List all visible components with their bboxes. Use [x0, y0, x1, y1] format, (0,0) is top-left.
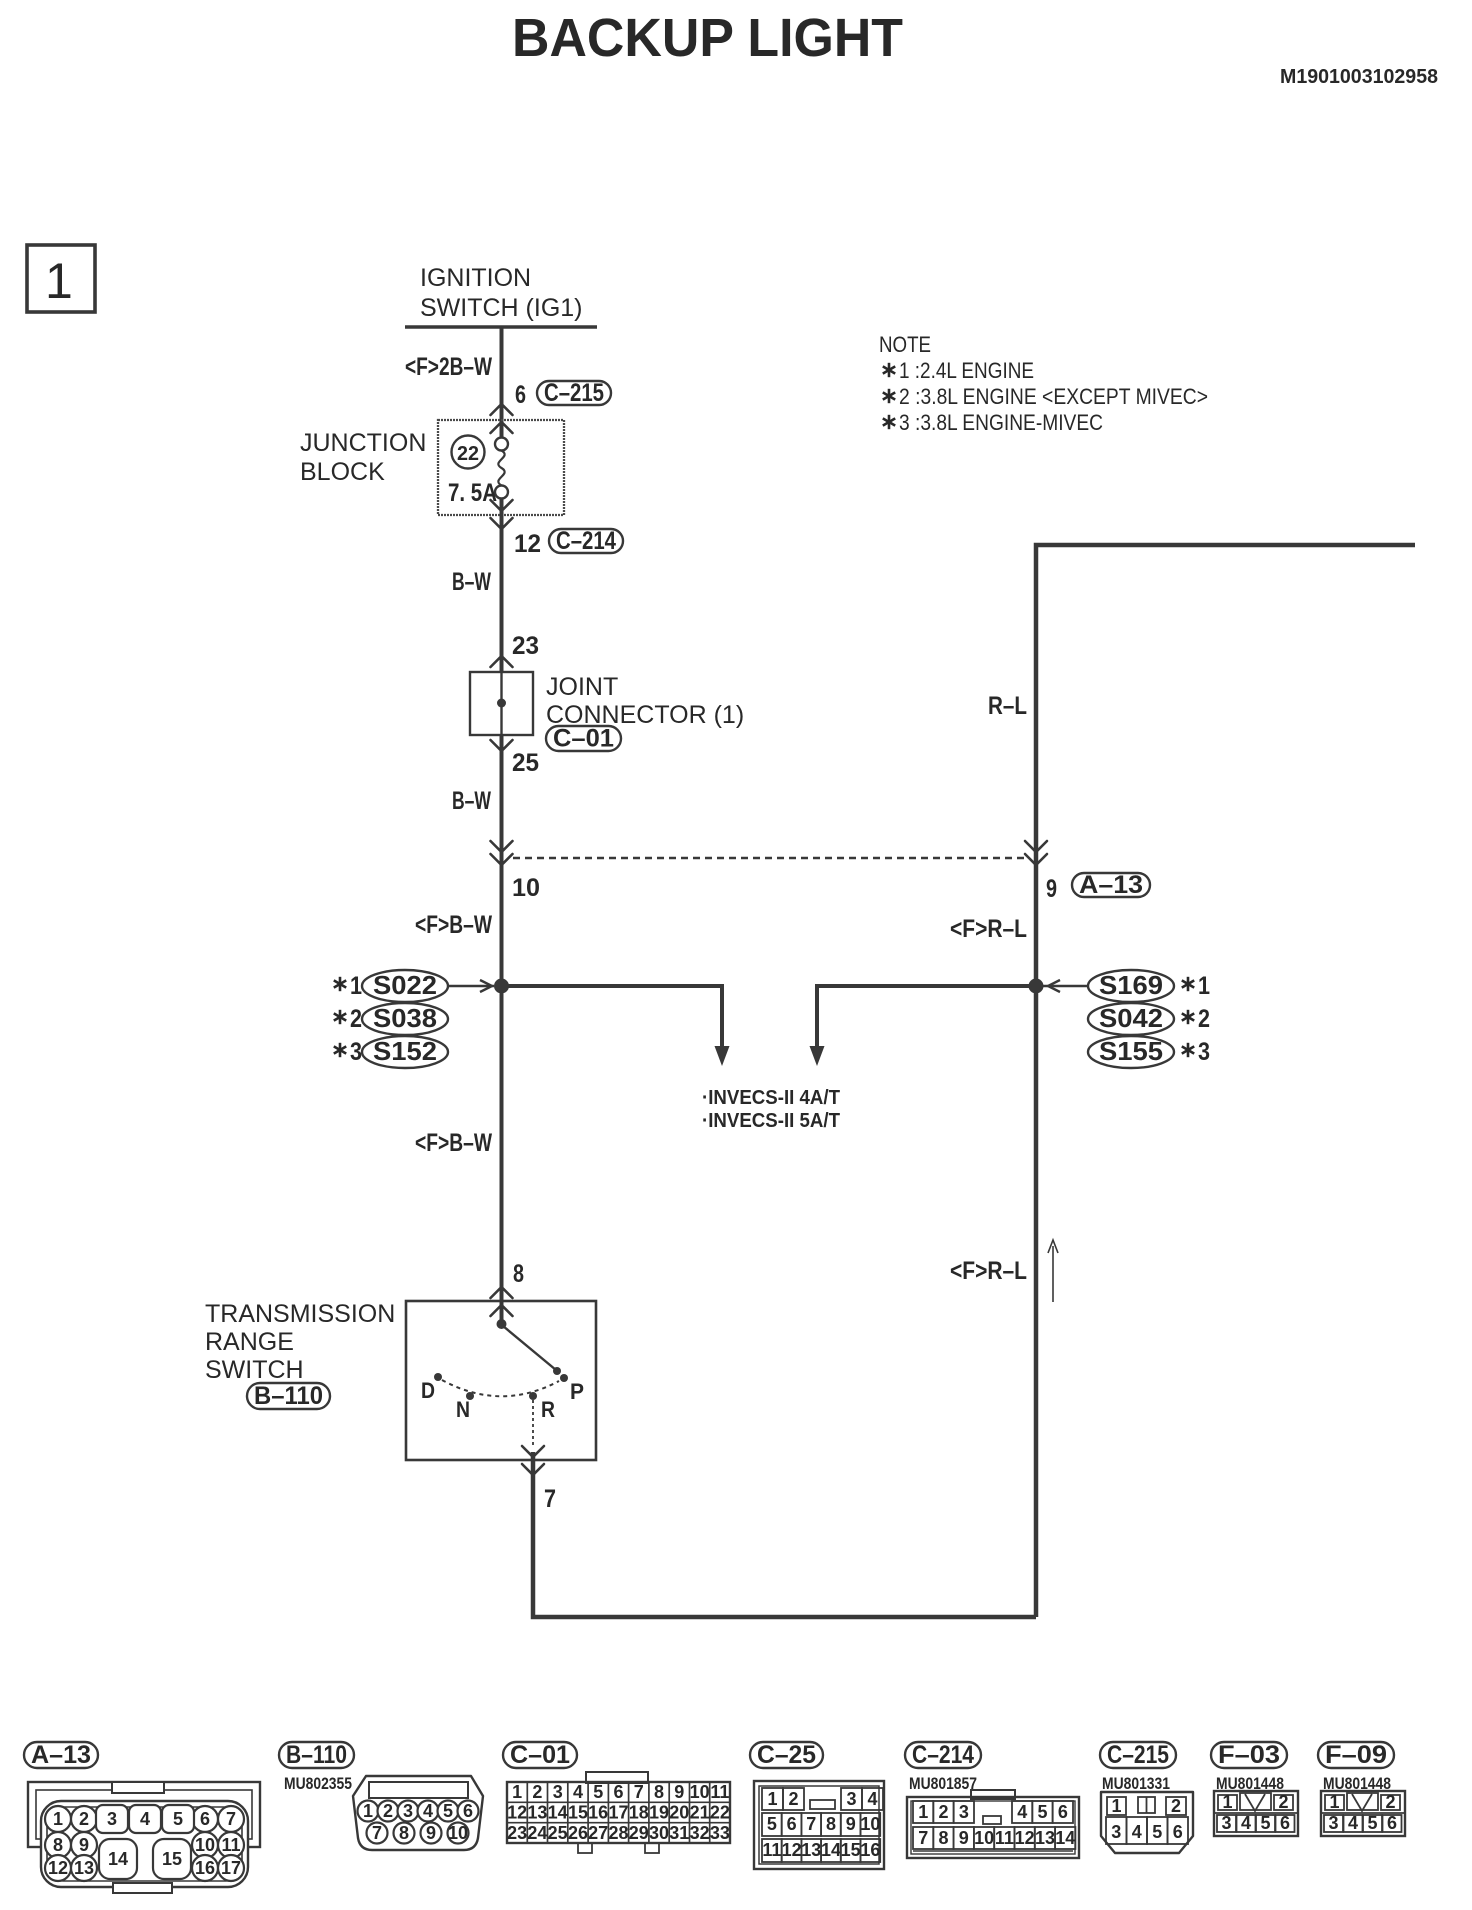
svg-text:20: 20: [669, 1803, 689, 1823]
svg-text:1: 1: [1329, 1792, 1339, 1812]
svg-text:P: P: [570, 1379, 584, 1404]
svg-text:9: 9: [426, 1823, 436, 1843]
svg-text:27: 27: [588, 1823, 608, 1843]
svg-text:5: 5: [593, 1782, 603, 1802]
svg-text:R: R: [541, 1397, 555, 1422]
svg-text:3: 3: [1328, 1813, 1338, 1833]
svg-text:S152: S152: [373, 1036, 437, 1066]
connector pinout F-03 drawing: [1214, 1791, 1298, 1836]
svg-text:MU801857: MU801857: [909, 1774, 977, 1793]
svg-text:<F>B–W: <F>B–W: [415, 1129, 492, 1157]
svg-text:12: 12: [782, 1840, 802, 1860]
svg-text:1 :2.4L ENGINE: 1 :2.4L ENGINE: [899, 358, 1034, 383]
svg-text:6: 6: [1280, 1813, 1290, 1833]
current flow arrow: [1048, 1240, 1058, 1302]
contact R: [529, 1392, 555, 1422]
svg-text:33: 33: [710, 1823, 730, 1843]
svg-text:5: 5: [443, 1801, 453, 1821]
svg-text:IGNITION: IGNITION: [420, 264, 531, 292]
svg-text:C–215: C–215: [1107, 1741, 1169, 1769]
svg-text:N: N: [456, 1397, 470, 1422]
svg-text:D: D: [421, 1378, 435, 1403]
connector pinout C-01 drawing: [507, 1772, 730, 1853]
note mark *1 right: [1182, 972, 1210, 1000]
svg-text:28: 28: [608, 1823, 628, 1843]
svg-text:21: 21: [690, 1803, 710, 1823]
branch wire to INVECS (right): [810, 986, 1037, 1066]
svg-text:2 :3.8L ENGINE <EXCEPT MIVEC>: 2 :3.8L ENGINE <EXCEPT MIVEC>: [899, 384, 1208, 409]
connector pinout C-01 label: [503, 1741, 577, 1769]
svg-text:3: 3: [1198, 1038, 1210, 1066]
connector pinout B-110 drawing: [353, 1776, 483, 1850]
svg-text:JUNCTION: JUNCTION: [300, 429, 426, 457]
svg-text:TRANSMISSION: TRANSMISSION: [205, 1300, 395, 1328]
svg-text:7: 7: [544, 1485, 556, 1513]
svg-text:BLOCK: BLOCK: [300, 458, 385, 486]
svg-text:MU801331: MU801331: [1102, 1774, 1170, 1793]
svg-text:1: 1: [350, 972, 362, 1000]
svg-text:10: 10: [690, 1782, 710, 1802]
connector arrows at C-214: [491, 500, 513, 529]
svg-text:13: 13: [74, 1858, 94, 1878]
svg-text:16: 16: [588, 1803, 608, 1823]
svg-text:12: 12: [507, 1803, 527, 1823]
svg-text:4: 4: [1132, 1822, 1142, 1842]
svg-text:6: 6: [200, 1809, 210, 1829]
svg-text:31: 31: [669, 1823, 689, 1843]
svg-text:17: 17: [221, 1858, 241, 1878]
wire: splice oval to junction: [448, 980, 494, 992]
connector arrows at B-110 top: [491, 1287, 513, 1316]
splice S038: [362, 1003, 448, 1035]
svg-text:SWITCH: SWITCH: [205, 1356, 304, 1384]
power source: IGNITION SWITCH (IG1): [405, 264, 597, 327]
svg-text:5: 5: [767, 1814, 777, 1834]
svg-text:C–214: C–214: [556, 527, 616, 555]
svg-text:6: 6: [1387, 1813, 1397, 1833]
svg-text:4: 4: [1241, 1813, 1251, 1833]
pin 12: [514, 530, 541, 558]
svg-text:5: 5: [1367, 1813, 1377, 1833]
svg-text:C–01: C–01: [553, 725, 614, 753]
svg-text:2: 2: [788, 1789, 798, 1809]
splice S169: [1088, 970, 1174, 1002]
note item 2: [883, 384, 1208, 409]
svg-text:·INVECS-II 5A/T: ·INVECS-II 5A/T: [702, 1110, 840, 1132]
note item 1: [883, 358, 1034, 383]
note mark *3 right: [1182, 1038, 1210, 1066]
svg-text:8: 8: [938, 1828, 948, 1848]
svg-text:9: 9: [959, 1828, 969, 1848]
connector arrows at C-215: [491, 404, 513, 433]
svg-text:F–03: F–03: [1218, 1741, 1280, 1769]
svg-text:17: 17: [608, 1803, 628, 1823]
svg-text:B–W: B–W: [452, 787, 491, 815]
svg-text:26: 26: [568, 1823, 588, 1843]
svg-text:BACKUP LIGHT: BACKUP LIGHT: [512, 8, 903, 68]
svg-text:<F>R–L: <F>R–L: [950, 915, 1027, 943]
svg-text:7: 7: [634, 1782, 644, 1802]
transmission range switch box: [406, 1301, 596, 1460]
svg-text:25: 25: [548, 1823, 568, 1843]
pin 10: [512, 874, 540, 902]
pin 8: [513, 1260, 524, 1288]
wire label <F>B-W (2): [415, 1129, 492, 1157]
switch movable contact: [503, 1326, 561, 1375]
svg-text:23: 23: [512, 632, 539, 660]
svg-text:19: 19: [649, 1803, 669, 1823]
wire label B-W: [452, 568, 491, 596]
svg-text:3: 3: [403, 1801, 413, 1821]
note mark *2 right: [1182, 1005, 1210, 1033]
svg-text:8: 8: [654, 1782, 664, 1802]
connector pinout B-110 label: [279, 1741, 354, 1769]
svg-text:3: 3: [107, 1809, 117, 1829]
joint connector (1) box: [470, 672, 533, 735]
svg-text:8: 8: [399, 1823, 409, 1843]
splice S042: [1088, 1003, 1174, 1035]
svg-text:2: 2: [1198, 1005, 1210, 1033]
svg-text:15: 15: [841, 1840, 861, 1860]
svg-text:14: 14: [548, 1803, 568, 1823]
svg-text:5: 5: [1260, 1813, 1270, 1833]
svg-text:1: 1: [363, 1801, 373, 1821]
svg-text:4: 4: [867, 1789, 877, 1809]
svg-text:S042: S042: [1099, 1003, 1163, 1033]
wire label <F>R-L: [950, 915, 1027, 943]
connector pinout C-214 label: [905, 1741, 981, 1769]
svg-text:3: 3: [1221, 1813, 1231, 1833]
svg-text:C–25: C–25: [757, 1741, 816, 1769]
svg-text:8: 8: [53, 1835, 63, 1855]
svg-text:6: 6: [787, 1814, 797, 1834]
svg-text:NOTE: NOTE: [879, 332, 931, 357]
contact N: [456, 1392, 474, 1422]
wire: joint connector to splice (B-W): [500, 735, 504, 1324]
connector pinout C-215 part number: [1102, 1774, 1170, 1793]
connector pinout F-09 drawing: [1321, 1791, 1405, 1836]
dotted wire from contact R: [532, 1400, 534, 1446]
svg-text:6: 6: [463, 1801, 473, 1821]
svg-text:2: 2: [79, 1809, 89, 1829]
connector label C-214: [549, 527, 623, 555]
svg-text:3: 3: [553, 1782, 563, 1802]
svg-text:3: 3: [959, 1802, 969, 1822]
svg-text:16: 16: [195, 1858, 215, 1878]
svg-text:10: 10: [195, 1835, 215, 1855]
svg-text:·INVECS-II 4A/T: ·INVECS-II 4A/T: [702, 1087, 840, 1109]
svg-text:9: 9: [1046, 875, 1057, 903]
svg-text:18: 18: [629, 1803, 649, 1823]
connector pinout C-215 label: [1100, 1741, 1176, 1769]
document number: [1280, 66, 1438, 88]
svg-text:1: 1: [918, 1802, 928, 1822]
connector arrow at joint connector top: [491, 656, 513, 667]
connector pinout A-13 label: [24, 1741, 98, 1769]
connector pinout C-25 label: [750, 1741, 823, 1769]
connector arrows at A-13 left: [491, 841, 513, 865]
pin 6: [515, 381, 526, 409]
svg-text:4: 4: [423, 1801, 433, 1821]
svg-text:24: 24: [527, 1823, 547, 1843]
svg-text:10: 10: [512, 874, 540, 902]
connector arrows at B-110 bottom: [522, 1446, 544, 1475]
joint connector label: [546, 673, 744, 729]
INVECS note text: [702, 1087, 840, 1132]
svg-text:2: 2: [938, 1802, 948, 1822]
svg-text:1: 1: [53, 1809, 63, 1829]
connector pinout F-03 label: [1211, 1741, 1287, 1769]
svg-text:C–214: C–214: [912, 1741, 974, 1769]
connector pinout A-13 drawing: [28, 1782, 260, 1893]
svg-text:1: 1: [767, 1789, 777, 1809]
svg-text:7: 7: [806, 1814, 816, 1834]
svg-text:6: 6: [1058, 1802, 1068, 1822]
wire label <F>2B-W: [405, 353, 492, 381]
svg-text:S022: S022: [373, 970, 437, 1000]
switch pivot: [497, 1319, 507, 1329]
fuse number circle 22: [452, 436, 485, 469]
transmission range switch label: [205, 1300, 395, 1384]
svg-text:4: 4: [1348, 1813, 1358, 1833]
junction block label: [300, 429, 426, 486]
svg-text:3 :3.8L ENGINE-MIVEC: 3 :3.8L ENGINE-MIVEC: [899, 410, 1103, 435]
svg-text:14: 14: [108, 1849, 128, 1869]
svg-text:16: 16: [860, 1840, 880, 1860]
svg-text:S169: S169: [1099, 970, 1163, 1000]
svg-text:R–L: R–L: [988, 692, 1027, 720]
svg-text:S038: S038: [373, 1003, 437, 1033]
contact D: [421, 1373, 442, 1403]
svg-text:3: 3: [350, 1038, 362, 1066]
svg-text:RANGE: RANGE: [205, 1328, 294, 1356]
wire: right riser R-L up to top: [1036, 545, 1415, 1617]
svg-text:15: 15: [162, 1849, 182, 1869]
svg-text:6: 6: [613, 1782, 623, 1802]
svg-text:5: 5: [1037, 1802, 1047, 1822]
svg-text:29: 29: [629, 1823, 649, 1843]
svg-text:4: 4: [1017, 1802, 1027, 1822]
wire label R-L: [988, 692, 1027, 720]
svg-text:8: 8: [513, 1260, 524, 1288]
connector label C-215: [537, 379, 611, 407]
svg-text:14: 14: [821, 1840, 841, 1860]
svg-text:15: 15: [568, 1803, 588, 1823]
svg-text:2: 2: [532, 1782, 542, 1802]
svg-text:11: 11: [221, 1835, 240, 1855]
note mark *3 left: [334, 1038, 362, 1066]
svg-text:B–110: B–110: [286, 1741, 347, 1769]
svg-text:A–13: A–13: [31, 1741, 91, 1769]
connector pinout C-25 drawing: [754, 1781, 884, 1869]
branch wire to INVECS (left): [502, 986, 730, 1066]
wire label <F>R-L (2): [950, 1257, 1027, 1285]
svg-text:3: 3: [1111, 1822, 1121, 1842]
svg-text:5: 5: [1152, 1822, 1162, 1842]
note mark *1 left: [334, 972, 362, 1000]
connector pinout F-09 part number: [1323, 1774, 1391, 1793]
wire label B-W (2): [452, 787, 491, 815]
wire: ignition switch to junction block (2B-W): [500, 327, 504, 438]
wire: switch to right riser (bottom run): [533, 1452, 1036, 1617]
svg-text:S155: S155: [1099, 1036, 1163, 1066]
svg-text:6: 6: [1173, 1822, 1183, 1842]
connector arrow at joint connector bottom: [491, 740, 513, 751]
splice S022: [362, 970, 448, 1002]
svg-text:1: 1: [1111, 1796, 1121, 1816]
fuse 22 (7.5A) symbol: [495, 438, 508, 499]
svg-text:B–W: B–W: [452, 568, 491, 596]
svg-text:C–01: C–01: [510, 1741, 570, 1769]
connector pinout B-110 part number: [284, 1774, 352, 1793]
svg-text:4: 4: [573, 1782, 583, 1802]
connector label B-110: [247, 1382, 330, 1410]
svg-text:F–09: F–09: [1325, 1741, 1387, 1769]
connector pinout C-215 drawing: [1101, 1792, 1193, 1853]
svg-text:8: 8: [826, 1814, 836, 1834]
svg-text:C–215: C–215: [544, 379, 604, 407]
connector label A-13: [1072, 871, 1150, 899]
svg-text:1: 1: [512, 1782, 522, 1802]
svg-text:7: 7: [226, 1809, 236, 1829]
connector pinout C-214 part number: [909, 1774, 977, 1793]
svg-text:23: 23: [507, 1823, 527, 1843]
svg-text:32: 32: [690, 1823, 710, 1843]
svg-text:6: 6: [515, 381, 526, 409]
svg-text:9: 9: [674, 1782, 684, 1802]
note item 3: [883, 410, 1103, 435]
svg-text:2: 2: [350, 1005, 362, 1033]
pin 23: [512, 632, 539, 660]
svg-text:9: 9: [79, 1835, 89, 1855]
junction node right: [1029, 979, 1089, 994]
connector label C-01: [546, 725, 621, 753]
svg-text:1: 1: [1198, 972, 1210, 1000]
junction block box: [438, 420, 564, 515]
svg-text:10: 10: [974, 1828, 994, 1848]
svg-text:7. 5A: 7. 5A: [448, 479, 497, 507]
svg-text:10: 10: [860, 1814, 880, 1834]
svg-text:14: 14: [1055, 1828, 1075, 1848]
selector dashed arc: [442, 1380, 559, 1396]
note mark *2 left: [334, 1005, 362, 1033]
zone box 1: [27, 245, 95, 312]
splice S155: [1088, 1036, 1174, 1068]
svg-text:2: 2: [1385, 1792, 1395, 1812]
connector pinout F-03 part number: [1216, 1774, 1284, 1793]
note block: [879, 332, 931, 357]
svg-text:<F>R–L: <F>R–L: [950, 1257, 1027, 1285]
svg-text:2: 2: [1278, 1792, 1288, 1812]
svg-text:7: 7: [918, 1828, 928, 1848]
svg-text:2: 2: [1171, 1796, 1181, 1816]
harness boundary dashed line A-13: [513, 857, 1028, 859]
svg-text:10: 10: [448, 1823, 468, 1843]
svg-text:11: 11: [710, 1782, 729, 1802]
svg-text:25: 25: [512, 749, 539, 777]
svg-text:M1901003102958: M1901003102958: [1280, 66, 1438, 88]
svg-text:9: 9: [846, 1814, 856, 1834]
svg-text:30: 30: [649, 1823, 669, 1843]
splice S152: [362, 1036, 448, 1068]
svg-text:22: 22: [457, 443, 479, 465]
pin 7: [544, 1485, 556, 1513]
pin 9: [1046, 875, 1057, 903]
junction node left: [494, 979, 509, 994]
svg-text:13: 13: [1035, 1828, 1055, 1848]
connector pinout C-214 drawing: [907, 1790, 1079, 1858]
connector arrows at A-13 right: [1025, 841, 1047, 865]
title BACKUP LIGHT: [512, 8, 903, 68]
fuse rating 7.5A: [448, 479, 497, 507]
svg-text:A–13: A–13: [1079, 871, 1143, 899]
svg-text:3: 3: [846, 1789, 856, 1809]
contact P: [560, 1374, 584, 1404]
svg-text:12: 12: [1015, 1828, 1035, 1848]
svg-text:<F>2B–W: <F>2B–W: [405, 353, 492, 381]
wire label <F>B-W: [415, 911, 492, 939]
svg-text:MU802355: MU802355: [284, 1774, 352, 1793]
connector pinout F-09 label: [1318, 1741, 1394, 1769]
svg-text:11: 11: [995, 1828, 1014, 1848]
svg-text:1: 1: [45, 253, 73, 309]
svg-text:4: 4: [140, 1809, 150, 1829]
svg-text:2: 2: [383, 1801, 393, 1821]
pin 25: [512, 749, 539, 777]
svg-text:JOINT: JOINT: [546, 673, 618, 701]
svg-text:SWITCH (IG1): SWITCH (IG1): [420, 294, 583, 322]
svg-text:1: 1: [1222, 1792, 1232, 1812]
wire: junction block to joint connector (B-W): [500, 499, 504, 673]
svg-text:22: 22: [710, 1803, 730, 1823]
svg-text:7: 7: [372, 1823, 382, 1843]
svg-text:12: 12: [514, 530, 541, 558]
svg-text:12: 12: [48, 1858, 68, 1878]
svg-text:13: 13: [801, 1840, 821, 1860]
svg-text:5: 5: [173, 1809, 183, 1829]
svg-text:11: 11: [762, 1840, 781, 1860]
svg-text:<F>B–W: <F>B–W: [415, 911, 492, 939]
svg-text:13: 13: [527, 1803, 547, 1823]
svg-text:B–110: B–110: [254, 1382, 323, 1410]
